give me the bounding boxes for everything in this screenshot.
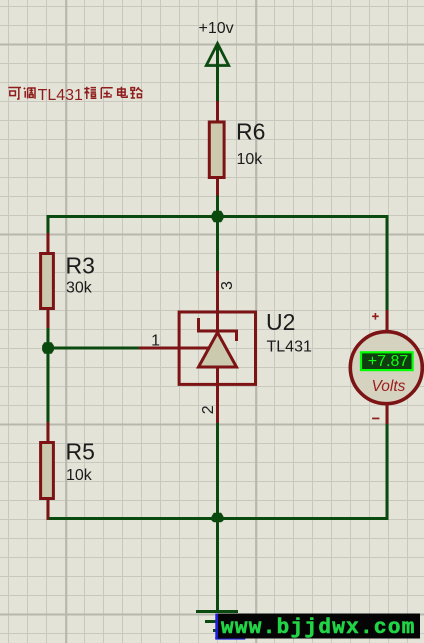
svg-text:R6: R6 bbox=[236, 119, 265, 145]
ground bbox=[196, 612, 238, 631]
node junction left bbox=[42, 342, 54, 354]
svg-text:10k: 10k bbox=[66, 467, 93, 484]
R6 reference label bbox=[236, 119, 265, 145]
svg-text:TL431: TL431 bbox=[38, 87, 83, 104]
wire right drop top bbox=[386, 215, 389, 311]
pin 2 wire bbox=[216, 384, 219, 424]
watermark www.bjjdwx.com bbox=[215, 614, 420, 641]
pin 1 label bbox=[151, 332, 160, 349]
svg-text:R5: R5 bbox=[66, 439, 95, 465]
wire bottom rail bbox=[49, 517, 389, 520]
U2 TL431 symbol bbox=[179, 312, 238, 384]
power +10v label bbox=[199, 20, 234, 37]
wire R6 bottom to node bbox=[216, 196, 219, 217]
resistor R5 pin bottom bbox=[47, 499, 50, 521]
wire node to pin 1 bbox=[48, 347, 140, 350]
pin 3 wire bbox=[216, 271, 219, 312]
resistor R3 pin top bbox=[47, 233, 50, 254]
wire bottom node to ground bbox=[216, 519, 219, 612]
pin 3 label bbox=[219, 281, 236, 290]
resistor R6 pin bottom bbox=[216, 177, 219, 196]
svg-text:+10v: +10v bbox=[199, 20, 234, 37]
voltmeter plus label bbox=[372, 313, 379, 320]
svg-text:10k: 10k bbox=[237, 151, 264, 168]
voltmeter reading +7.87 bbox=[368, 353, 409, 370]
wire R3 to node bbox=[47, 328, 50, 349]
wire pin 2 to bottom rail bbox=[216, 423, 219, 519]
power arrow symbol bbox=[206, 44, 228, 66]
svg-text:2: 2 bbox=[200, 405, 217, 414]
voltmeter minus label bbox=[372, 418, 379, 420]
pin 2 label bbox=[200, 405, 217, 414]
R3 reference label bbox=[66, 252, 95, 278]
resistor R6 pin top bbox=[216, 101, 219, 122]
resistor R3 body bbox=[41, 254, 54, 309]
R6 value label 10k bbox=[237, 151, 264, 168]
voltmeter body bbox=[350, 332, 422, 404]
wire power stem bbox=[216, 46, 219, 101]
svg-text:Volts: Volts bbox=[372, 378, 406, 395]
svg-text:R3: R3 bbox=[66, 252, 95, 278]
voltmeter display bbox=[361, 352, 413, 370]
node junction top bbox=[212, 211, 224, 223]
U2 value label TL431 bbox=[267, 338, 312, 355]
U2 reference label bbox=[266, 309, 295, 335]
svg-text:+7.87: +7.87 bbox=[368, 353, 409, 370]
resistor R5 pin top bbox=[47, 422, 50, 443]
voltmeter Volts label bbox=[372, 378, 406, 395]
op-amp U2 box bbox=[179, 312, 255, 384]
svg-text:30k: 30k bbox=[66, 279, 93, 296]
voltmeter pin bottom bbox=[386, 404, 389, 425]
wire node to pin 3 bbox=[216, 217, 219, 272]
R5 reference label bbox=[66, 439, 95, 465]
resistor R3 pin bottom bbox=[47, 309, 50, 330]
svg-text:U2: U2 bbox=[266, 309, 295, 335]
R5 value label 10k bbox=[66, 467, 93, 484]
wire voltmeter to bottom rail bbox=[386, 424, 389, 519]
R3 value label 30k bbox=[66, 279, 93, 296]
wire node to R5 bbox=[47, 348, 50, 423]
voltmeter pin top bbox=[386, 310, 389, 331]
title text 可调TL431稳压电路 bbox=[8, 87, 142, 104]
resistor R6 body bbox=[209, 122, 224, 178]
svg-text:www.bjjdwx.com: www.bjjdwx.com bbox=[221, 617, 416, 640]
svg-text:TL431: TL431 bbox=[267, 338, 312, 355]
svg-text:3: 3 bbox=[219, 281, 236, 290]
wire left drop bbox=[47, 215, 50, 235]
node junction bottom bbox=[212, 513, 224, 523]
pin 1 wire bbox=[139, 347, 180, 350]
wire top rail bbox=[47, 215, 389, 218]
resistor R5 body bbox=[41, 443, 54, 499]
